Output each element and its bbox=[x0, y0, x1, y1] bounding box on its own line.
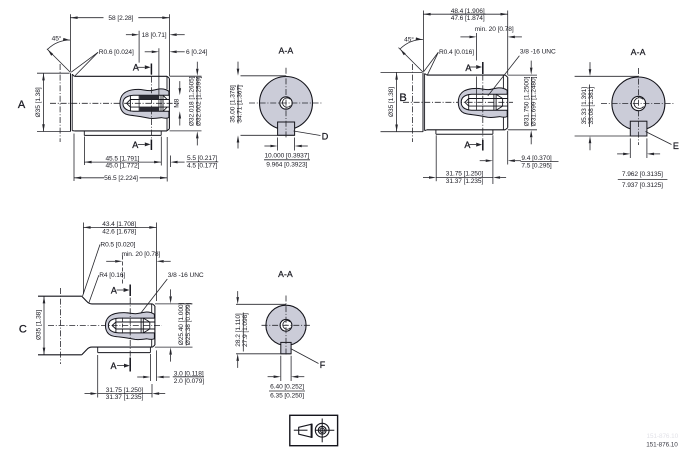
variant A dimension 18 [0.71] bbox=[132, 33, 139, 36]
variant C shaft body outline bbox=[38, 295, 82, 297]
section A-A (variant A) dimension 10.000/9.964 bbox=[277, 138, 279, 151]
svg-text:47.6 [1.874]: 47.6 [1.874] bbox=[451, 15, 485, 22]
variant A mounting face centerline bbox=[59, 64, 61, 142]
variant B dimension 31.75/31.37 bbox=[435, 135, 437, 181]
variant C section line A-A bbox=[129, 287, 131, 371]
svg-text:35.00 [1.378]: 35.00 [1.378] bbox=[229, 85, 236, 123]
variant A dimension 58 [2.28] bbox=[69, 14, 71, 71]
svg-text:31.37 [1.235]: 31.37 [1.235] bbox=[106, 394, 144, 401]
svg-text:R0.6 [0.024]: R0.6 [0.024] bbox=[99, 49, 134, 56]
svg-text:31.75 [1.250]: 31.75 [1.250] bbox=[106, 387, 144, 394]
svg-text:R0.4 [0.016]: R0.4 [0.016] bbox=[439, 49, 474, 56]
section A-A (variant C) center hole 3/8-16 bbox=[280, 319, 292, 331]
svg-text:58 [2.28]: 58 [2.28] bbox=[108, 15, 133, 22]
svg-text:45.5 [1.791]: 45.5 [1.791] bbox=[105, 155, 139, 162]
svg-text:151-876.10: 151-876.10 bbox=[647, 433, 679, 440]
svg-text:A-A: A-A bbox=[278, 269, 293, 279]
section A-A (variant B) crosshair centerlines bbox=[601, 103, 675, 105]
pictogram tapered shaft side view bbox=[299, 424, 312, 437]
svg-text:5.5 [0.217]: 5.5 [0.217] bbox=[187, 155, 218, 162]
section A-A (variant A) crosshair centerlines bbox=[249, 102, 322, 104]
svg-text:A: A bbox=[111, 285, 117, 295]
svg-text:D: D bbox=[322, 131, 329, 141]
variant B dimension 48.4/47.6 bbox=[422, 11, 424, 72]
variant C shaft centerline bbox=[48, 325, 162, 327]
svg-text:9.964 [0.3923]: 9.964 [0.3923] bbox=[266, 162, 307, 169]
svg-text:3/8 -16 UNC: 3/8 -16 UNC bbox=[520, 49, 556, 56]
svg-text:2.0 [0.079]: 2.0 [0.079] bbox=[174, 378, 205, 385]
variant B key (side view) bbox=[435, 130, 437, 134]
svg-text:A: A bbox=[111, 361, 117, 371]
variant C cutaway with 3/8-16 UNC tapped hole bbox=[105, 312, 154, 340]
svg-text:A: A bbox=[465, 63, 471, 73]
svg-text:7.962 [0.3135]: 7.962 [0.3135] bbox=[622, 171, 663, 178]
variant C mounting face centerline bbox=[60, 288, 62, 364]
section A-A (variant C) dimension 6.40/6.35 bbox=[280, 356, 282, 381]
section A-A (variant C) keyway F bbox=[281, 342, 291, 353]
svg-text:A: A bbox=[132, 140, 138, 150]
variant B shaft body outline bbox=[422, 72, 424, 131]
variant C dimension 3.0/2.0 bbox=[149, 354, 151, 381]
variant A section line A-A bbox=[150, 66, 152, 147]
variant A dia35 dimension bbox=[37, 72, 70, 74]
variant B section line A-A bbox=[482, 64, 484, 148]
svg-text:35.08 [1.381]: 35.08 [1.381] bbox=[588, 87, 595, 125]
svg-text:F: F bbox=[320, 360, 326, 370]
variant A M8 thread dimension bbox=[179, 88, 182, 95]
section A-A (variant A) shaft circle bbox=[260, 77, 313, 130]
svg-text:18 [0.71]: 18 [0.71] bbox=[142, 32, 167, 39]
svg-text:6.35 [0.250]: 6.35 [0.250] bbox=[270, 393, 304, 400]
svg-text:7.937 [0.3125]: 7.937 [0.3125] bbox=[622, 182, 663, 189]
svg-text:27.9 [1.098]: 27.9 [1.098] bbox=[242, 313, 249, 347]
variant A dimension 6 [0.24] bbox=[152, 51, 159, 54]
variant B dia35 dimension bbox=[381, 71, 423, 73]
svg-text:R4 [0.16]: R4 [0.16] bbox=[99, 272, 125, 279]
svg-text:3.0 [0.118]: 3.0 [0.118] bbox=[174, 370, 204, 377]
svg-text:min. 20 [0.78]: min. 20 [0.78] bbox=[121, 251, 160, 258]
section A-A (variant B) shaft circle bbox=[612, 77, 665, 130]
svg-text:45.0 [1.772]: 45.0 [1.772] bbox=[105, 163, 139, 170]
svg-text:Ø32.002 [1.2599]: Ø32.002 [1.2599] bbox=[196, 76, 203, 126]
svg-text:4.5 [0.177]: 4.5 [0.177] bbox=[187, 163, 218, 170]
pictogram shaft end view target bbox=[315, 423, 329, 437]
svg-text:A-A: A-A bbox=[631, 47, 646, 57]
svg-text:6 [0.24]: 6 [0.24] bbox=[186, 49, 208, 56]
variant B dimension 9.4/7.5 bbox=[507, 131, 509, 165]
variant A shaft body outline bbox=[70, 73, 72, 131]
variant A thread depth extension lines bbox=[138, 31, 140, 63]
shaft pictogram box bbox=[290, 415, 338, 445]
variant A key (side view) bbox=[83, 131, 85, 136]
svg-text:R0.5 [0.020]: R0.5 [0.020] bbox=[100, 242, 135, 249]
variant C dia35 dimension bbox=[43, 296, 45, 355]
svg-text:Ø35 [1.38]: Ø35 [1.38] bbox=[35, 310, 42, 340]
svg-text:Ø35 [1.38]: Ø35 [1.38] bbox=[35, 87, 42, 117]
svg-text:31.37 [1.235]: 31.37 [1.235] bbox=[446, 178, 484, 185]
variant B dia31.750/31.699 dimension bbox=[508, 74, 537, 76]
section A-A (variant B) dimension 7.962/7.937 bbox=[629, 138, 631, 158]
variant A dia32.018/32.002 dimension bbox=[170, 75, 202, 77]
variant C thread depth extension line (dashed) bbox=[121, 256, 123, 284]
variant B mounting face centerline bbox=[411, 64, 413, 142]
svg-text:min. 20 [0.78]: min. 20 [0.78] bbox=[475, 26, 514, 33]
svg-text:3/8 -16 UNC: 3/8 -16 UNC bbox=[168, 272, 204, 279]
section A-A (variant C) dimension 28.2/27.9 bbox=[236, 303, 286, 305]
variant A dimension 5.5/4.5 bbox=[169, 156, 171, 168]
svg-text:151-876.10: 151-876.10 bbox=[646, 441, 678, 448]
variant C key (side view) bbox=[97, 347, 99, 353]
section A-A (variant A) center hole M8 bbox=[280, 97, 292, 109]
section A-A (variant B) keyway E bbox=[630, 121, 647, 136]
svg-text:42.6 [1.678]: 42.6 [1.678] bbox=[102, 228, 136, 235]
svg-text:A: A bbox=[18, 99, 26, 111]
section A-A (variant B) dimension 35.33/35.08 bbox=[575, 75, 639, 77]
svg-text:E: E bbox=[673, 141, 679, 151]
variant B shaft centerline bbox=[403, 101, 513, 103]
variant A shaft centerline bbox=[50, 102, 179, 104]
svg-text:6.40 [0.252]: 6.40 [0.252] bbox=[270, 383, 304, 390]
section A-A (variant C) crosshair centerlines bbox=[262, 324, 312, 326]
variant C dimension 31.75/31.37 bbox=[97, 355, 99, 398]
section A-A (variant A) keyway D bbox=[278, 122, 295, 135]
variant A dimension 56.5 [2.224] bbox=[73, 134, 75, 182]
svg-text:7.5 [0.295]: 7.5 [0.295] bbox=[521, 162, 552, 169]
svg-text:31.75 [1.250]: 31.75 [1.250] bbox=[446, 171, 484, 178]
variant B thread depth extension line bbox=[476, 33, 478, 61]
svg-text:Ø35 [1.38]: Ø35 [1.38] bbox=[388, 87, 395, 117]
section A-A (variant A) dimension 35.00/34.71 bbox=[241, 75, 287, 77]
section A-A (variant C) shaft circle bbox=[266, 305, 306, 345]
variant C dia25.40/25.38 dimension bbox=[155, 303, 193, 305]
svg-text:9.4 [0.370]: 9.4 [0.370] bbox=[521, 155, 552, 162]
section A-A (variant B) center hole 3/8-16 bbox=[631, 96, 645, 110]
svg-text:10.000 [0.3937]: 10.000 [0.3937] bbox=[264, 153, 309, 160]
variant B cutaway with 3/8-16 UNC tapped hole bbox=[458, 88, 507, 118]
variant A cutaway with M8 tapped hole bbox=[120, 89, 169, 119]
svg-text:C: C bbox=[19, 323, 27, 335]
svg-text:56.5 [2.224]: 56.5 [2.224] bbox=[104, 175, 138, 182]
svg-text:M8: M8 bbox=[173, 98, 180, 107]
svg-text:A-A: A-A bbox=[279, 46, 294, 56]
variant A dimension 45.5/45.0 bbox=[83, 137, 85, 166]
variant C dimension 43.4/42.6 bbox=[82, 223, 84, 295]
